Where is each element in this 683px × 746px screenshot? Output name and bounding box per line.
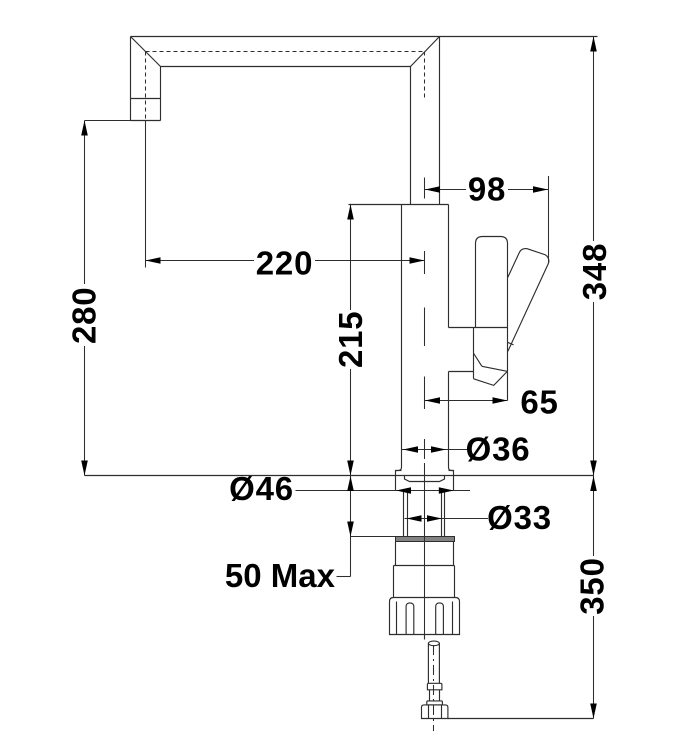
supply stud opening ellipse (428, 641, 439, 646)
spout end extension line down to 220 (145, 121, 147, 268)
svg-text:350: 350 (573, 557, 610, 614)
nut middle section top edge (394, 565, 455, 567)
dim O46 line (296, 490, 471, 492)
svg-text:50 Max: 50 Max (225, 557, 336, 594)
svg-text:280: 280 (66, 287, 103, 344)
knurl slot left (406, 603, 414, 635)
arrow 98 left (425, 186, 440, 193)
handle boss right edge and 65 extension line (507, 328, 509, 401)
spout top edge with 348 extension (131, 36, 598, 38)
arrow O36 left (403, 446, 418, 453)
arrow 348 bottom (590, 461, 597, 476)
arrow O36 right (431, 446, 446, 453)
arrow 215 top (347, 205, 354, 220)
dim O33 line (405, 518, 489, 520)
threaded shank inner right (441, 491, 443, 537)
hex nut (422, 705, 448, 719)
dim 50max tick at gasket top (351, 536, 396, 538)
dim 280 leader at spout bottom (85, 120, 131, 122)
threaded shank outer right (444, 491, 446, 537)
dim 348 line (593, 37, 595, 476)
dim 98 line (425, 189, 548, 191)
svg-text:Ø33: Ø33 (487, 499, 552, 536)
lever bottom tip outline (474, 371, 508, 385)
dim 350 line (593, 476, 595, 719)
arrow 65 right (493, 397, 508, 404)
dim 50max leader to text (337, 576, 351, 578)
gasket (396, 537, 455, 542)
arrow 280 bottom (81, 461, 88, 476)
baseline extension to 350 (448, 718, 594, 720)
arrow 50max bottom (347, 522, 354, 537)
white gaps behind texts on lines (69, 175, 609, 616)
svg-text:Ø46: Ø46 (229, 470, 294, 507)
svg-text:65: 65 (520, 384, 558, 421)
column centerline tick at 98 (424, 178, 426, 199)
spout left edge (130, 37, 132, 121)
handle boss left chamfer (474, 354, 482, 367)
stud mid section (430, 690, 440, 701)
dim 280 line (84, 121, 86, 476)
svg-text:220: 220 (256, 245, 313, 282)
body top edge with 215 extension (349, 204, 449, 206)
body right edge upper (448, 205, 450, 328)
column centerline solid through base (424, 463, 426, 635)
knurl edge lines (397, 602, 453, 635)
arrow 220 right (410, 257, 425, 264)
centerline tick below nut (424, 635, 426, 640)
handle boss bottom shoulder (449, 371, 474, 373)
spout end vertical centerline (dashed) (145, 52, 147, 121)
body right edge lower (449, 372, 454, 491)
stud centerline dash-dot (433, 645, 435, 731)
hex nut facet lines (429, 705, 442, 719)
spout miter diagonal (131, 37, 161, 67)
spout horizontal centerline (dashed) (146, 51, 425, 53)
arrow 215 bottom (347, 461, 354, 476)
arrow 280 top (81, 121, 88, 136)
arrow 220 left (146, 257, 161, 264)
knurled nut outline (390, 598, 460, 635)
spout end bottom (131, 120, 161, 122)
lever tip upper edge (482, 366, 507, 371)
arrow 348 top (590, 37, 597, 52)
threaded shank outer left (403, 491, 405, 537)
arrow 350 bottom (590, 704, 597, 719)
base recess below counter (405, 476, 445, 482)
dimension texts (66, 171, 613, 615)
aerator divider line (131, 98, 161, 100)
down tube right edge (439, 37, 441, 205)
knurl slot right (436, 603, 444, 635)
right miter diagonal (411, 37, 440, 67)
supply stud sides (428, 643, 439, 683)
nut upper section sides (396, 542, 454, 566)
dim O36 line (402, 449, 469, 451)
closed handle paddle (476, 237, 508, 328)
nut middle section sides (394, 566, 455, 598)
arrow 350 top (590, 476, 597, 491)
98 extension line at lever edge (548, 176, 550, 263)
spout end right edge (160, 67, 162, 121)
column centerline upper fine dashes (424, 52, 426, 101)
arrow 50max top (347, 476, 354, 491)
stud collar 1 (427, 683, 442, 690)
dim 65 line (425, 400, 508, 402)
body left edge (396, 205, 402, 491)
dimension lines and arrows (85, 37, 594, 719)
arrow 98 right (533, 186, 548, 193)
svg-text:215: 215 (332, 311, 369, 368)
column centerline long dashes (424, 251, 426, 459)
svg-text:348: 348 (576, 243, 613, 300)
counter line (85, 475, 594, 477)
svg-text:98: 98 (468, 171, 506, 208)
arrow O46 right (439, 487, 454, 494)
svg-text:Ø36: Ø36 (466, 431, 531, 468)
threaded shank inner left (407, 491, 409, 537)
dim 50max line (350, 476, 352, 577)
handle boss top shoulder (449, 327, 508, 329)
dim 215 line (350, 205, 352, 476)
arrow O33 left (407, 515, 422, 522)
lever heel notch (507, 342, 513, 345)
down tube left edge (410, 67, 412, 205)
stud collar 2 (427, 701, 443, 705)
dim 220 line (146, 260, 425, 262)
base step top edges (396, 470, 402, 472)
open handle lever (tilted) (508, 249, 549, 352)
handle boss left edge (473, 328, 475, 379)
arrow O46 left (396, 487, 411, 494)
spout tube bottom edge (161, 66, 411, 68)
arrow O33 right (427, 515, 442, 522)
arrow 65 left (425, 397, 440, 404)
